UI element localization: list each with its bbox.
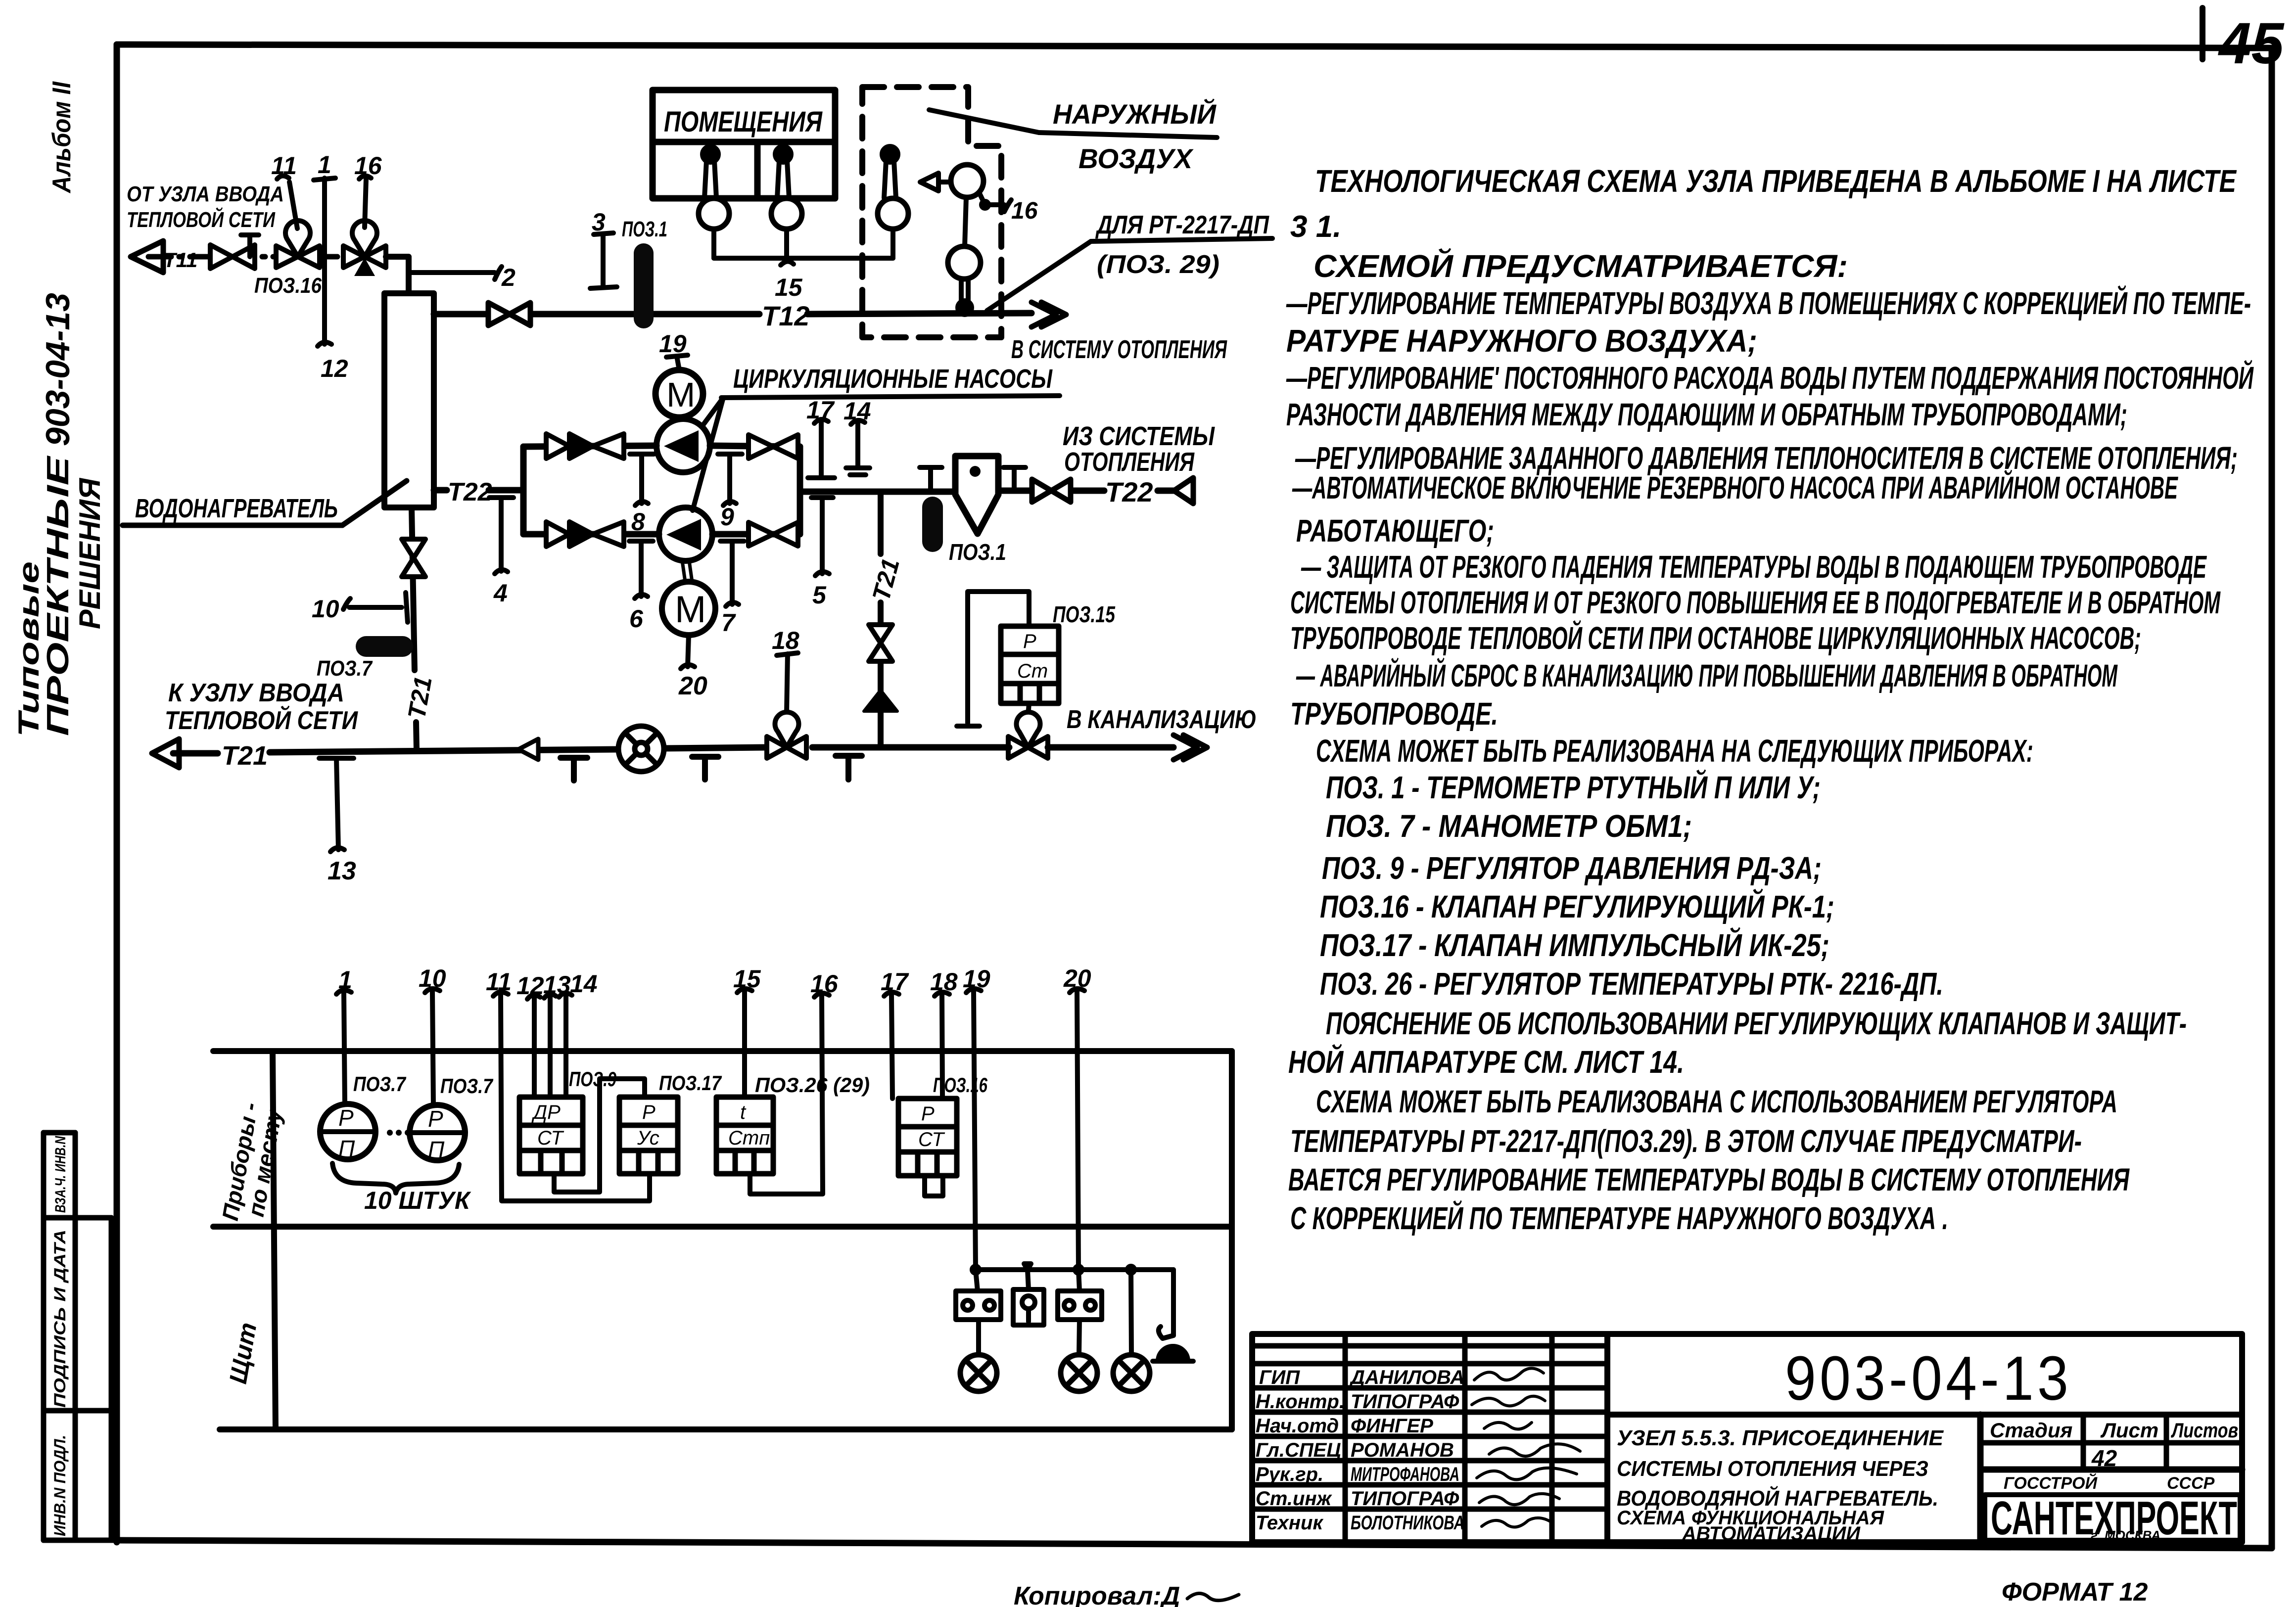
elevator wheel valve (618, 726, 664, 772)
title block grid (1252, 1334, 2242, 1542)
svg-text:ПОЗ.26 (29): ПОЗ.26 (29) (755, 1073, 870, 1097)
label К узлу ввода тепловой сети (165, 679, 358, 735)
tap left of mud trap (920, 467, 942, 490)
svg-text:ФИНГЕР: ФИНГЕР (1351, 1415, 1433, 1437)
svg-text:В КАНАЛИЗАЦИЮ: В КАНАЛИЗАЦИЮ (1067, 705, 1257, 734)
label Из системы отопления (1063, 421, 1215, 477)
svg-text:Р: Р (338, 1105, 354, 1131)
svg-text:ПОЗ.7: ПОЗ.7 (353, 1072, 406, 1096)
pump 2 (659, 507, 712, 561)
svg-text:ПОЗ. 9 - РЕГУЛЯТОР ДАВЛЕНИЯ: ПОЗ. 9 - РЕГУЛЯТОР ДАВЛЕНИЯ РД-ЗА; (1322, 850, 1822, 886)
svg-text:РАТУРЕ НАРУЖНОГО ВОЗДУХА;: РАТУРЕ НАРУЖНОГО ВОЗДУХА; (1286, 323, 1757, 359)
svg-text:16: 16 (810, 970, 839, 998)
svg-text:Рук.гр.: Рук.гр. (1256, 1464, 1323, 1485)
svg-text:МИТРОФАНОВА: МИТРОФАНОВА (1351, 1464, 1459, 1485)
relief valve 18 (767, 712, 806, 758)
box поз.15 (1001, 626, 1059, 703)
wire to lamp 3 (1131, 1270, 1131, 1355)
valve T22 out (1032, 479, 1071, 502)
panel stem 11 with loop to Ус (493, 992, 650, 1201)
sensor circle 2 (771, 198, 802, 229)
svg-text:17: 17 (881, 968, 909, 996)
svg-text:18: 18 (772, 627, 799, 654)
arrow из системы (1174, 478, 1193, 504)
svg-text:ВЗА.Ч. ИНВ.N: ВЗА.Ч. ИНВ.N (52, 1136, 69, 1213)
label Для РТ-2217-ДП (поз.29) (987, 211, 1272, 311)
shaft pump2-M2 (682, 561, 692, 582)
mud trap грязевик (955, 456, 998, 534)
svg-text:18: 18 (930, 968, 958, 996)
tap 16 stem (359, 176, 371, 228)
thermometer capsule поз.1 (634, 243, 654, 328)
svg-text:ВОДОНАГРЕВАТЕЛЬ: ВОДОНАГРЕВАТЕЛЬ (135, 494, 338, 523)
dots between gauges (387, 1130, 411, 1136)
svg-text:Т21: Т21 (222, 741, 268, 771)
wire return line (173, 747, 1173, 753)
panel stem 12 (527, 995, 540, 1097)
panel stem 17 (884, 992, 899, 1099)
svg-text:П: П (428, 1137, 445, 1162)
label Наружный воздух (929, 98, 1217, 174)
lamp 3 (1113, 1355, 1150, 1391)
svg-text:ПОЗ.1: ПОЗ.1 (949, 539, 1006, 565)
svg-text:ФОРМАТ 12: ФОРМАТ 12 (2002, 1578, 2148, 1607)
svg-text:Листов: Листов (2171, 1419, 2238, 1442)
svg-text:12: 12 (516, 972, 544, 1000)
svg-text:2: 2 (501, 264, 515, 291)
wire from converter to tap 16 node (979, 192, 1011, 212)
svg-text:ПОЗ. 7 - МАНОМЕТР ОБМ1;: ПОЗ. 7 - МАНОМЕТР ОБМ1; (1326, 808, 1692, 844)
svg-text:—РЕГУЛИРОВАНИЕ ТЕМПЕРАТУРЫ В: —РЕГУЛИРОВАНИЕ ТЕМПЕРАТУРЫ ВОЗДУХА В ПОМ… (1286, 284, 2251, 321)
svg-text:Ст.инж: Ст.инж (1256, 1488, 1333, 1510)
svg-text:— ЗАЩИТА ОТ РЕЗКОГО ПАДЕНИЯ: — ЗАЩИТА ОТ РЕЗКОГО ПАДЕНИЯ ТЕМПЕРАТУРЫ … (1301, 549, 2207, 585)
svg-text:СХЕМА МОЖЕТ БЫТЬ РЕАЛИЗОВАН: СХЕМА МОЖЕТ БЫТЬ РЕАЛИЗОВАНА НА СЛЕДУЮЩИ… (1316, 733, 2033, 769)
svg-text:СХЕМОЙ ПРЕДУСМАТРИВАЕТСЯ:: СХЕМОЙ ПРЕДУСМАТРИВАЕТСЯ: (1313, 247, 1848, 284)
svg-text:10 ШТУК: 10 ШТУК (364, 1187, 471, 1214)
svg-text:5: 5 (812, 581, 827, 609)
svg-text:1: 1 (318, 151, 331, 179)
bell (1153, 1270, 1193, 1361)
panel stem 1 (336, 990, 351, 1104)
tap 20 stem (681, 635, 695, 669)
svg-text:903-04-13: 903-04-13 (39, 293, 77, 446)
panel stem 18 with loop to box (925, 992, 949, 1196)
svg-text:Гл.СПЕЦ: Гл.СПЕЦ (1256, 1439, 1341, 1461)
svg-text:ТЕХНОЛОГИЧЕСКАЯ СХЕМА УЗЛА П: ТЕХНОЛОГИЧЕСКАЯ СХЕМА УЗЛА ПРИВЕДЕНА В А… (1315, 163, 2237, 199)
arrow to sewer (1173, 735, 1207, 760)
svg-text:45: 45 (2218, 11, 2285, 76)
tap 6 (629, 541, 653, 598)
gauge 1 поз.7 (320, 1104, 375, 1161)
svg-text:ПОЗ. 26 - РЕГУЛЯТОР ТЕМПЕРАТУ: ПОЗ. 26 - РЕГУЛЯТОР ТЕМПЕРАТУРЫ РТК- 221… (1320, 966, 1943, 1002)
drain tee 1 (561, 758, 587, 781)
tap 2 line (411, 267, 502, 279)
check valve on T21 branch (864, 690, 897, 711)
svg-text:ПОДПИСЬ И ДАТА: ПОДПИСЬ И ДАТА (51, 1230, 69, 1408)
tap 14 (846, 420, 870, 475)
svg-text:Техник: Техник (1256, 1512, 1323, 1534)
valve on supply (210, 245, 255, 269)
branch T21 down (878, 492, 884, 747)
svg-text:ВОЗДУХ: ВОЗДУХ (1078, 143, 1194, 174)
svg-text:15: 15 (775, 274, 803, 301)
svg-text:РЕШЕНИЯ: РЕШЕНИЯ (73, 478, 106, 629)
svg-text:ПОЗ.1: ПОЗ.1 (622, 217, 667, 241)
tap 10 (343, 593, 408, 622)
svg-text:14: 14 (843, 397, 871, 425)
drain tee 3 (836, 756, 862, 780)
wire T22 out (998, 488, 1174, 494)
svg-text:ПОЗ.16: ПОЗ.16 (254, 274, 322, 298)
svg-text:Р: Р (1023, 631, 1036, 652)
wire to lamp 2 (1079, 1320, 1079, 1355)
outlet valve bottom branch (749, 522, 798, 546)
vessel водонагреватель (384, 293, 434, 507)
wire between converters (965, 197, 966, 246)
svg-text:К УЗЛУ ВВОДА: К УЗЛУ ВВОДА (168, 679, 344, 707)
gate valve on vessel drop (402, 539, 425, 577)
gate valve on T21 branch (869, 625, 892, 661)
svg-text:15: 15 (733, 965, 761, 993)
wire поз.15 sensing line (957, 592, 1029, 726)
tap 1 line down to 12 (314, 178, 335, 346)
wire T22 from vessel to loop (434, 487, 523, 494)
sensor circle 3 (878, 198, 908, 229)
svg-text:ТРУБОПРОВОДЕ.: ТРУБОПРОВОДЕ. (1290, 696, 1498, 732)
svg-text:Стп: Стп (728, 1127, 770, 1149)
svg-text:П: П (338, 1136, 355, 1161)
signatures scribbles (1472, 1368, 1580, 1527)
page number 45 (2202, 8, 2285, 76)
svg-text:ИНВ.N ПОДЛ.: ИНВ.N ПОДЛ. (51, 1435, 69, 1536)
svg-text:РАБОТАЮЩЕГО;: РАБОТАЮЩЕГО; (1296, 513, 1494, 549)
bridge поз.9 to поз.17 (554, 1079, 645, 1192)
label Циркуляционные насосы (693, 364, 1060, 510)
svg-text:11: 11 (271, 152, 297, 180)
svg-text:Нач.отд: Нач.отд (1256, 1415, 1339, 1437)
stage headers (1990, 1419, 2238, 1471)
stamp column bottom-left (44, 1133, 117, 1540)
label Водонагреватель (123, 481, 407, 525)
svg-text:Н.контр.: Н.контр. (1256, 1391, 1345, 1413)
svg-text:ОТОПЛЕНИЯ: ОТОПЛЕНИЯ (1064, 447, 1195, 477)
regulating valve РК-1 with actuator (поз.16) (343, 221, 386, 276)
svg-text:Типовые: Типовые (13, 561, 45, 737)
svg-text:14: 14 (570, 970, 598, 998)
logo cell (1985, 1473, 2240, 1545)
tap 4 (489, 498, 514, 574)
svg-text:— АВАРИЙНЫЙ СБРОС В КАНАЛИЗА: — АВАРИЙНЫЙ СБРОС В КАНАЛИЗАЦИЮ ПРИ ПОВЫ… (1296, 657, 2118, 693)
outside sensor bulb (882, 146, 898, 198)
svg-text:(ПОЗ. 29): (ПОЗ. 29) (1097, 250, 1219, 279)
tap 7 (720, 541, 744, 606)
tap 19 stem (666, 355, 688, 370)
svg-text:903-04-13: 903-04-13 (1785, 1343, 2072, 1413)
converter circle upper (951, 165, 984, 197)
svg-text:СССР: СССР (2167, 1474, 2215, 1493)
svg-text:6: 6 (629, 605, 644, 633)
svg-text:ГОССТРОЙ: ГОССТРОЙ (2004, 1473, 2098, 1493)
check+gate valve bottom branch (546, 522, 624, 547)
svg-text:—АВТОМАТИЧЕСКОЕ ВКЛЮЧЕНИЕ РЕ: —АВТОМАТИЧЕСКОЕ ВКЛЮЧЕНИЕ РЕЗЕРВНОГО НАС… (1292, 469, 2178, 505)
svg-text:Стадия: Стадия (1990, 1419, 2072, 1442)
svg-text:Ус: Ус (637, 1127, 659, 1149)
lamp bus (972, 1266, 1173, 1273)
room sensor bulb 2 (775, 146, 791, 198)
arrow into supply (131, 241, 163, 273)
svg-text:ТИПОГРАФ: ТИПОГРАФ (1351, 1488, 1459, 1510)
tap right of mud trap (1003, 467, 1026, 490)
fuse box 1 (956, 1270, 1001, 1320)
svg-text:ТИПОГРАФ: ТИПОГРАФ (1351, 1391, 1459, 1413)
svg-text:РОМАНОВ: РОМАНОВ (1351, 1439, 1454, 1461)
panel stem 10 (425, 989, 440, 1105)
svg-text:ПРОЕКТНЫЕ: ПРОЕКТНЫЕ (41, 456, 75, 736)
svg-text:ВАЕТСЯ РЕГУЛИРОВАНИЕ ТЕМПЕРА: ВАЕТСЯ РЕГУЛИРОВАНИЕ ТЕМПЕРАТУРЫ ВОДЫ В … (1288, 1162, 2130, 1197)
svg-text:ДР: ДР (531, 1102, 561, 1123)
tap 11 stem (277, 176, 297, 229)
tap 3 (590, 233, 617, 288)
svg-text:Т12: Т12 (762, 300, 810, 331)
panel stem 19 down to lamps (966, 989, 981, 1270)
svg-text:г. МОСКВА: г. МОСКВА (2091, 1528, 2160, 1543)
block поз.16 Р/СТ (898, 1099, 957, 1176)
svg-text:ПОЗ.17 - КЛАПАН ИМПУЛЬСНЫЙ: ПОЗ.17 - КЛАПАН ИМПУЛЬСНЫЙ ИК-25; (1320, 926, 1829, 963)
panel stem 14 (559, 993, 572, 1097)
room sensor bulb 1 (703, 146, 718, 198)
svg-text:С КОРРЕКЦИЕЙ ПО ТЕМПЕРАТУРЕ: С КОРРЕКЦИЕЙ ПО ТЕМПЕРАТУРЕ НАРУЖНОГО ВО… (1290, 1199, 1948, 1236)
tap 9 (718, 454, 742, 505)
switch box (1013, 1264, 1044, 1325)
svg-text:7: 7 (721, 609, 736, 637)
svg-text:Т22: Т22 (448, 478, 492, 506)
svg-text:ДЛЯ РТ-2217-ДП: ДЛЯ РТ-2217-ДП (1095, 211, 1270, 239)
svg-text:13: 13 (328, 857, 356, 885)
svg-text:СИСТЕМЫ ОТОПЛЕНИЯ ЧЕРЕЗ: СИСТЕМЫ ОТОПЛЕНИЯ ЧЕРЕЗ (1617, 1457, 1928, 1481)
svg-text:СТ: СТ (537, 1127, 564, 1149)
sensor circle 1 (699, 198, 729, 229)
svg-text:ПОЗ.16: ПОЗ.16 (933, 1073, 987, 1097)
svg-text:ДАНИЛОВА: ДАНИЛОВА (1349, 1367, 1464, 1388)
svg-text:3 1.: 3 1. (1290, 210, 1341, 244)
svg-text:12: 12 (321, 355, 348, 382)
svg-text:4: 4 (493, 579, 508, 607)
svg-text:ЦИРКУЛЯЦИОННЫЕ НАСОСЫ: ЦИРКУЛЯЦИОННЫЕ НАСОСЫ (733, 364, 1053, 394)
outlet valve top branch (749, 435, 798, 459)
relief valve (поз.15 controlled) (1008, 712, 1048, 758)
description cell (1617, 1426, 1944, 1545)
wire elbow to vessel (386, 257, 409, 293)
wire to lamp 1 (976, 1320, 981, 1355)
svg-text:М: М (675, 589, 706, 631)
svg-text:ИЗ СИСТЕМЫ: ИЗ СИСТЕМЫ (1063, 421, 1215, 451)
panel stem 13 (544, 994, 556, 1097)
wire поз.15 to relief valve (1028, 703, 1029, 716)
dashed box наружный воздух (862, 87, 1001, 337)
arrow link to converter (920, 173, 951, 191)
personnel rows (1256, 1367, 1464, 1534)
panel stem 15 (737, 989, 752, 1097)
svg-text:ПОЗ.17: ПОЗ.17 (659, 1071, 722, 1095)
svg-text:ПОЯСНЕНИЕ ОБ ИСПОЛЬЗОВАНИИ: ПОЯСНЕНИЕ ОБ ИСПОЛЬЗОВАНИИ РЕГУЛИРУЮЩИХ … (1326, 1006, 2187, 1041)
footer Копировал (1014, 1582, 1239, 1607)
block поз.9 ДР/СТ (519, 1097, 583, 1174)
svg-text:17: 17 (806, 396, 835, 424)
svg-text:Р: Р (428, 1106, 443, 1132)
svg-text:М: М (666, 375, 695, 414)
svg-text:ПОЗ.7: ПОЗ.7 (317, 656, 373, 681)
sensor bus wires (714, 229, 893, 265)
fuse box 2 (1058, 1270, 1102, 1320)
svg-text:ОТ УЗЛА ВВОДА: ОТ УЗЛА ВВОДА (127, 182, 284, 206)
flow arrow on return line (518, 739, 538, 760)
drain tee 2 (692, 757, 718, 780)
check+gate valve top branch (546, 434, 624, 459)
wire vessel drop to return (412, 507, 417, 749)
valve stem handle (241, 235, 259, 257)
svg-text:ПОЗ. 1 - ТЕРМОМЕТР РТУТНЫЙ П: ПОЗ. 1 - ТЕРМОМЕТР РТУТНЫЙ П ИЛИ У; (1326, 769, 1821, 805)
svg-text:ТРУБОПРОВОДЕ ТЕПЛОВОЙ СЕТИ: ТРУБОПРОВОДЕ ТЕПЛОВОЙ СЕТИ ПРИ ОСТАНОВЕ … (1290, 619, 2141, 656)
svg-text:11: 11 (486, 968, 512, 996)
capsule поз.7 horizontal (356, 636, 413, 657)
svg-text:СИСТЕМЫ ОТОПЛЕНИЯ И ОТ РЕЗК: СИСТЕМЫ ОТОПЛЕНИЯ И ОТ РЕЗКОГО ПОВЫШЕНИЯ… (1290, 585, 2221, 620)
brace 10 штук (332, 1163, 459, 1193)
svg-text:ТЕМПЕРАТУРЫ РТ-2217-ДП(ПОЗ.29: ТЕМПЕРАТУРЫ РТ-2217-ДП(ПОЗ.29). В ЭТОМ С… (1290, 1123, 2082, 1159)
control valve поз.16 with actuator (276, 221, 320, 268)
svg-text:Копировал:Д: Копировал:Д (1014, 1582, 1180, 1607)
label Приборы по месту (217, 1101, 287, 1223)
svg-text:16: 16 (1011, 198, 1038, 224)
panel stem 16 with loop to Стп (750, 993, 829, 1194)
lamp 1 (960, 1355, 997, 1391)
svg-text:Р: Р (921, 1103, 935, 1125)
svg-text:10: 10 (419, 964, 446, 992)
svg-text:Т22: Т22 (1105, 476, 1153, 507)
lower converter stem bulb (958, 279, 972, 315)
tap 17 (808, 419, 835, 478)
svg-text:19: 19 (963, 965, 990, 993)
svg-text:t: t (740, 1102, 747, 1123)
svg-text:НАРУЖНЫЙ: НАРУЖНЫЙ (1053, 98, 1217, 130)
block поз.17 Р/Ус (619, 1097, 678, 1174)
svg-text:8: 8 (631, 508, 645, 536)
lamp 2 (1061, 1355, 1097, 1391)
motor M2 (662, 582, 715, 635)
svg-text:1: 1 (338, 966, 352, 994)
band lines (213, 1051, 1232, 1429)
svg-text:Т11: Т11 (163, 248, 197, 272)
svg-text:ПОЗ.15: ПОЗ.15 (1053, 601, 1116, 627)
svg-text:20: 20 (1063, 964, 1091, 992)
svg-text:ПОМЕЩЕНИЯ: ПОМЕЩЕНИЯ (664, 106, 823, 138)
svg-text:В СИСТЕМУ ОТОПЛЕНИЯ: В СИСТЕМУ ОТОПЛЕНИЯ (1011, 335, 1227, 364)
block поз.26 t/Стп (716, 1097, 773, 1174)
pump 1 (656, 419, 710, 472)
svg-text:20: 20 (678, 672, 707, 700)
motor M1 (656, 370, 703, 417)
arrow to network (152, 739, 179, 768)
svg-text:Ст: Ст (1017, 660, 1048, 682)
gauge 2 поз.7 (410, 1105, 465, 1162)
tap 18 stem (777, 653, 798, 713)
panel stem 20 down to lamps (1070, 989, 1084, 1270)
arrow to heating system (1031, 302, 1066, 327)
svg-text:ТЕПЛОВОЙ СЕТИ: ТЕПЛОВОЙ СЕТИ (127, 207, 276, 232)
svg-text:42: 42 (2091, 1445, 2117, 1471)
svg-text:СХЕМА МОЖЕТ БЫТЬ РЕАЛИЗОВАН: СХЕМА МОЖЕТ БЫТЬ РЕАЛИЗОВАНА С ИСПОЛЬЗОВ… (1316, 1084, 2117, 1119)
svg-text:ТЕПЛОВОЙ СЕТИ: ТЕПЛОВОЙ СЕТИ (165, 705, 358, 735)
svg-text:СТ: СТ (918, 1129, 945, 1150)
pump loop piping (523, 446, 955, 534)
svg-text:16: 16 (354, 152, 382, 180)
svg-text:Альбом II: Альбом II (47, 81, 76, 194)
svg-text:Лист: Лист (2100, 1419, 2158, 1442)
svg-text:ПОЗ.7: ПОЗ.7 (440, 1074, 493, 1098)
converter circle lower (948, 246, 981, 279)
label От узла ввода тепловой сети (127, 182, 284, 232)
wire supply dash-dot (148, 254, 409, 260)
svg-text:НОЙ АППАРАТУРЕ СМ. ЛИСТ 14.: НОЙ АППАРАТУРЕ СМ. ЛИСТ 14. (1288, 1043, 1684, 1080)
svg-text:—РЕГУЛИРОВАНИЕ' ПОСТОЯННОГО Р: —РЕГУЛИРОВАНИЕ' ПОСТОЯННОГО РАСХОДА ВОДЫ… (1286, 359, 2254, 396)
box Помещения (653, 90, 835, 198)
shaft M1-pump1 (676, 419, 685, 420)
svg-text:БОЛОТНИКОВА: БОЛОТНИКОВА (1351, 1512, 1464, 1534)
svg-text:10: 10 (312, 595, 339, 623)
tap 8 (630, 454, 654, 505)
valve on T12 (488, 303, 530, 325)
svg-text:ПОЗ.16 - КЛАПАН РЕГУЛИРУЮЩИЙ: ПОЗ.16 - КЛАПАН РЕГУЛИРУЮЩИЙ РК-1; (1320, 888, 1834, 924)
wire T12 (434, 313, 1031, 314)
svg-text:РАЗНОСТИ ДАВЛЕНИЯ МЕЖДУ ПОДАЮЩ: РАЗНОСТИ ДАВЛЕНИЯ МЕЖДУ ПОДАЮЩИМ И ОБРАТ… (1286, 397, 2127, 432)
svg-text:Р: Р (642, 1102, 656, 1123)
svg-text:9: 9 (720, 503, 734, 531)
thermometer capsule поз.1 (middle) (922, 497, 943, 552)
svg-text:3: 3 (592, 208, 606, 236)
tap 5 (811, 498, 833, 576)
svg-text:ГИП: ГИП (1259, 1367, 1300, 1388)
svg-text:АВТОМАТИЗАЦИИ: АВТОМАТИЗАЦИИ (1682, 1523, 1861, 1545)
svg-text:УЗЕЛ 5.5.3. ПРИСОЕДИНЕНИЕ: УЗЕЛ 5.5.3. ПРИСОЕДИНЕНИЕ (1617, 1426, 1944, 1450)
tap 13 (319, 758, 354, 852)
